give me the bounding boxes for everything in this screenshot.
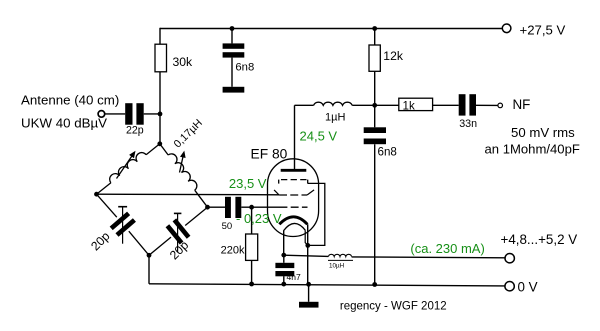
terminal 0 V — [505, 282, 514, 291]
tube suppressor grid g3 — [281, 179, 308, 181]
arrow variable inductor left — [117, 155, 133, 179]
wire suppressor grid loop — [308, 183, 325, 245]
capacitor 6n8 right — [364, 127, 386, 133]
svg-text:10µH: 10µH — [329, 263, 345, 270]
node antenna / 30k — [158, 112, 163, 117]
tube cathode — [279, 217, 307, 225]
svg-text:an 1Mohm/40pF: an 1Mohm/40pF — [485, 142, 580, 157]
wire 0V bus — [149, 284, 505, 286]
svg-text:+4,8...+5,2 V: +4,8...+5,2 V — [501, 232, 578, 247]
wire 30k bottom lead to tank top — [159, 72, 161, 144]
resistor 30k — [155, 44, 167, 72]
wire tank right vertex to 50p — [208, 206, 226, 208]
inductor 10uH — [328, 254, 351, 256]
wire cathode bus to +4,8V — [284, 255, 329, 256]
svg-text:UKW 40 dBµV: UKW 40 dBµV — [21, 116, 107, 131]
svg-text:12k: 12k — [383, 49, 404, 63]
wire 1k to 33n — [433, 104, 459, 106]
node anode / 12k / 1k — [372, 103, 377, 108]
terminal +27,5 V — [502, 24, 511, 33]
wire heater right lead — [305, 230, 308, 245]
wire 33n to NF terminal — [476, 104, 498, 106]
node tank right vertex — [205, 205, 210, 210]
svg-text:24,5 V: 24,5 V — [300, 129, 338, 144]
wire 30k top lead — [159, 28, 161, 44]
wire tank lower-right arm — [185, 207, 207, 225]
node 4n7 / 0V — [281, 282, 286, 287]
node right 6n8 / 0V — [372, 282, 377, 287]
node top rail / 6n8 — [230, 26, 235, 31]
wire 50p to grid junction — [241, 206, 279, 208]
wire screen grid feed (23,5V line) — [97, 193, 280, 196]
wire anode vertical lead — [294, 105, 296, 170]
wire heater left lead — [283, 231, 285, 255]
svg-text:30k: 30k — [173, 55, 194, 69]
wire anode to 1uH — [295, 104, 314, 106]
node 220k / 0V — [249, 282, 254, 287]
wire 220k bottom lead — [251, 260, 253, 284]
resistor 12k — [369, 45, 380, 71]
capacitor 50 — [225, 197, 231, 218]
ground under left 6n8 — [223, 87, 245, 93]
terminal NF output — [498, 103, 503, 108]
capacitor 4n7 — [275, 263, 294, 268]
wire ground stem below 0V bus — [308, 284, 310, 301]
svg-text:EF 80: EF 80 — [251, 147, 288, 162]
svg-text:Antenne (40 cm): Antenne (40 cm) — [21, 93, 119, 108]
node tank left vertex — [94, 192, 99, 197]
svg-text:regency - WGF 2012: regency - WGF 2012 — [340, 300, 447, 312]
arrow variable inductor right — [180, 154, 184, 173]
ground at tube cathode return — [299, 302, 319, 308]
wire left 6n8 to ground — [231, 58, 233, 87]
resistor 220k — [246, 234, 258, 260]
terminal antenna input — [98, 111, 105, 118]
capacitor 6n8 left — [223, 43, 245, 48]
tube control grid g1 — [280, 206, 308, 208]
wire node to 1k — [375, 104, 399, 106]
node g3 / cathode lead — [305, 243, 310, 248]
node tank top — [157, 141, 162, 146]
inductor tank left coil — [110, 153, 146, 183]
wire right 6n8 top lead — [374, 105, 376, 127]
trimmer adjust mark right — [177, 214, 179, 252]
tube anode — [281, 169, 307, 172]
capacitor trimmer 20p left — [111, 213, 128, 228]
node tank bottom vertex — [147, 253, 152, 258]
svg-text:6n8: 6n8 — [378, 145, 397, 158]
terminal +4,8...+5,2 V — [505, 254, 514, 263]
node grid / 220k — [249, 205, 254, 210]
inductor tank right coil 0,17uH — [168, 154, 197, 190]
wire 220k top lead — [251, 207, 253, 234]
inductor 1uH — [314, 102, 353, 105]
resistor 1k — [399, 98, 433, 110]
wire 10uH underline — [328, 259, 353, 261]
wire 22p to junction — [144, 113, 160, 115]
node ground / 0V — [306, 282, 311, 287]
svg-text:(ca. 230 mA): (ca. 230 mA) — [410, 241, 484, 256]
wire top +27,5V rail — [160, 28, 505, 30]
svg-text:6n8: 6n8 — [235, 61, 254, 73]
svg-text:1µH: 1µH — [325, 111, 345, 123]
wire 12k bottom lead — [374, 71, 376, 105]
wire 1uH to 12k node — [352, 104, 375, 106]
wire 4n7 top lead — [283, 255, 285, 263]
capacitor 33n — [459, 94, 466, 115]
tube heater — [283, 223, 305, 230]
wire tank upper-left arm — [146, 144, 160, 155]
svg-text:0 V: 0 V — [518, 279, 538, 294]
wire tank bottom vertex stem — [148, 255, 150, 283]
svg-text:22p: 22p — [126, 124, 144, 136]
svg-text:50 mV rms: 50 mV rms — [511, 125, 575, 140]
wire 12k top lead — [374, 28, 376, 45]
wire cathode right lead down to ground — [307, 224, 309, 284]
svg-text:23,5 V: 23,5 V — [229, 176, 267, 191]
capacitor 22p — [125, 103, 132, 125]
svg-text:4n7: 4n7 — [287, 272, 301, 282]
trimmer adjust mark left — [122, 207, 124, 244]
svg-text:33n: 33n — [459, 118, 477, 130]
svg-text:50: 50 — [222, 221, 233, 232]
svg-text:220k: 220k — [221, 245, 245, 257]
tube screen grid g2 — [279, 194, 307, 196]
svg-text:1k: 1k — [403, 100, 415, 113]
wire right 6n8 down to 0V bus — [374, 144, 376, 284]
wire tank upper-right arm — [160, 144, 168, 155]
wire tank lower-left arm — [97, 194, 117, 217]
svg-text:NF: NF — [513, 97, 531, 112]
wire left 6n8 top lead — [231, 28, 233, 44]
svg-text:+27,5 V: +27,5 V — [520, 22, 566, 37]
wire antenna terminal to 22p — [105, 113, 126, 115]
svg-text:- 0,23 V: - 0,23 V — [236, 211, 282, 226]
wire 4n7 bottom lead — [283, 276, 285, 284]
capacitor trimmer 20p right — [174, 220, 188, 237]
node cathode / 4n7 / 10uH — [281, 253, 286, 258]
tube EF80 envelope — [268, 159, 319, 237]
node top rail / 12k — [372, 26, 377, 31]
